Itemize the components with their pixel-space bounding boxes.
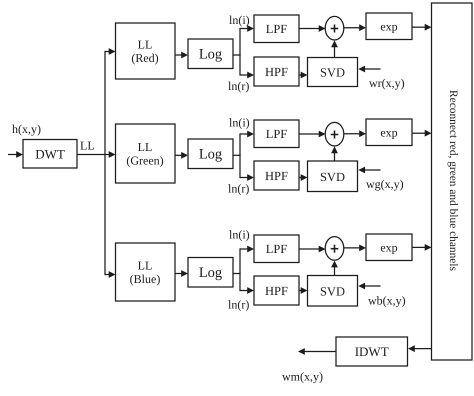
wire LPF Red to adder (299, 25, 326, 32)
svg-text:LPF: LPF (266, 242, 288, 256)
block LPF (Red) (254, 15, 299, 43)
block SVD (Green) (308, 161, 358, 192)
block LPF (Green) (254, 120, 299, 148)
svg-text:SVD: SVD (320, 284, 345, 298)
svg-text:ln(i): ln(i) (229, 228, 250, 242)
block LPF (Blue) (254, 235, 299, 263)
node ln(i) label Blue (229, 228, 250, 242)
svg-text:wg(x,y): wg(x,y) (366, 177, 404, 191)
wire branch to LL Red (105, 48, 116, 55)
svg-text:ln(r): ln(r) (228, 298, 249, 312)
svg-text:wb(x,y): wb(x,y) (368, 294, 406, 308)
block SVD (Blue) (308, 276, 358, 307)
block HPF (Blue) (254, 276, 299, 305)
wire LL Red to Log (175, 52, 188, 59)
wire branch ln(r) to HPF Red (240, 72, 254, 79)
svg-text:LPF: LPF (266, 127, 288, 141)
wire watermark wr(x,y) into SVD (358, 66, 380, 73)
svg-text:ln(i): ln(i) (229, 116, 250, 130)
wire vertical trunk (104, 51, 106, 275)
wire Log Blue split stub (233, 273, 241, 275)
wire adder Green to exp (344, 130, 366, 137)
svg-text:Log: Log (199, 47, 222, 63)
wire HPF Green to SVD (299, 174, 308, 181)
block IDWT (336, 337, 408, 366)
wire branch ln(i) to LPF Blue (240, 246, 254, 253)
node ln(r) label Red (228, 79, 249, 93)
wire Log Green split vertical (239, 133, 241, 178)
node ln(i) label Red (229, 13, 250, 27)
svg-text:Log: Log (199, 265, 222, 281)
wire branch to LL Blue (105, 271, 116, 278)
node wm(x,y) label (282, 370, 323, 384)
svg-text:ln(r): ln(r) (228, 182, 249, 196)
svg-text:LL: LL (80, 139, 95, 153)
wire watermark wg(x,y) into SVD (358, 167, 380, 174)
svg-text:(Blue): (Blue) (130, 272, 161, 286)
node wr(x,y) label (369, 76, 405, 90)
block LL (Red) (116, 23, 176, 79)
svg-text:HPF: HPF (265, 284, 288, 298)
svg-text:exp: exp (380, 241, 397, 255)
svg-text:(Red): (Red) (131, 51, 158, 65)
adder + (Red) (325, 16, 344, 40)
adder + (Blue) (325, 237, 344, 261)
wire HPF Blue to SVD (299, 287, 308, 294)
wire Log Red split stub (233, 54, 241, 56)
wire SVD Blue to adder (331, 261, 338, 276)
block Reconnect red, green and blue channels (432, 3, 473, 360)
node ln(r) label Blue (228, 298, 249, 312)
wire adder Blue to exp (344, 245, 366, 252)
block Log (Green) (188, 139, 233, 169)
svg-text:exp: exp (380, 126, 397, 140)
wire branch ln(r) to HPF Blue (240, 287, 254, 294)
wire reconnect box to IDWT (408, 345, 432, 352)
block HPF (Red) (254, 57, 299, 86)
svg-text:Log: Log (199, 147, 222, 163)
block exp (Green) (366, 119, 412, 146)
svg-text:LL: LL (138, 259, 153, 273)
block HPF (Green) (254, 161, 299, 190)
adder + (Green) (325, 122, 344, 146)
svg-text:h(x,y): h(x,y) (12, 122, 41, 136)
svg-text:(Green): (Green) (126, 154, 163, 168)
svg-text:IDWT: IDWT (355, 344, 389, 359)
svg-text:SVD: SVD (320, 66, 345, 80)
node ln(i) label Green (229, 116, 250, 130)
block DWT (23, 140, 77, 169)
wire Log Red split vertical (239, 28, 241, 76)
svg-text:ln(i): ln(i) (229, 13, 250, 27)
wire HPF Red to SVD (299, 72, 308, 79)
wire LL Green to Log (175, 152, 188, 159)
wire Log Green split stub (233, 154, 241, 156)
node wb(x,y) label (368, 294, 406, 308)
wire branch to LL Green (105, 151, 116, 158)
wire IDWT output wm (298, 348, 336, 355)
node LL label (80, 139, 95, 153)
wire branch ln(i) to LPF Green (240, 131, 254, 138)
svg-text:LL: LL (138, 38, 153, 52)
wire LPF Blue to adder (299, 246, 326, 253)
block LL (Blue) (116, 243, 176, 301)
wire branch ln(i) to LPF Red (240, 25, 254, 32)
svg-text:wm(x,y): wm(x,y) (282, 370, 323, 384)
wire SVD Red to adder (331, 40, 338, 57)
block Log (Blue) (188, 258, 233, 288)
node wg(x,y) label (366, 177, 404, 191)
wire Log Blue split vertical (239, 248, 241, 291)
block LL (Green) (116, 124, 176, 183)
wire SVD Green to adder (331, 146, 338, 161)
svg-text:exp: exp (380, 20, 397, 34)
block exp (Blue) (366, 234, 412, 261)
svg-text:HPF: HPF (265, 65, 288, 79)
wire LPF Green to adder (299, 131, 326, 138)
svg-text:wr(x,y): wr(x,y) (369, 76, 405, 90)
svg-text:LPF: LPF (266, 22, 288, 36)
wire exp Red to reconnect box (412, 24, 432, 31)
wire branch ln(r) to HPF Green (240, 174, 254, 181)
svg-text:Reconnect red, green and blue: Reconnect red, green and blue channels (447, 90, 459, 271)
wire watermark wb(x,y) into SVD (358, 283, 380, 290)
wire adder Red to exp (344, 24, 366, 31)
wire LL Blue to Log (175, 270, 188, 277)
wire input arrow into DWT (8, 151, 23, 158)
node ln(r) label Green (228, 182, 249, 196)
block Log (Red) (188, 39, 233, 69)
block exp (Red) (366, 13, 412, 40)
node h(x,y) input label (12, 122, 41, 136)
svg-text:SVD: SVD (320, 170, 345, 184)
svg-text:HPF: HPF (265, 169, 288, 183)
block SVD (Red) (308, 58, 358, 87)
wire exp Blue to reconnect box (412, 244, 432, 251)
svg-text:ln(r): ln(r) (228, 79, 249, 93)
wire DWT output to trunk (77, 154, 106, 156)
svg-text:DWT: DWT (35, 147, 65, 162)
svg-text:LL: LL (138, 140, 153, 154)
wire exp Green to reconnect box (412, 130, 432, 137)
